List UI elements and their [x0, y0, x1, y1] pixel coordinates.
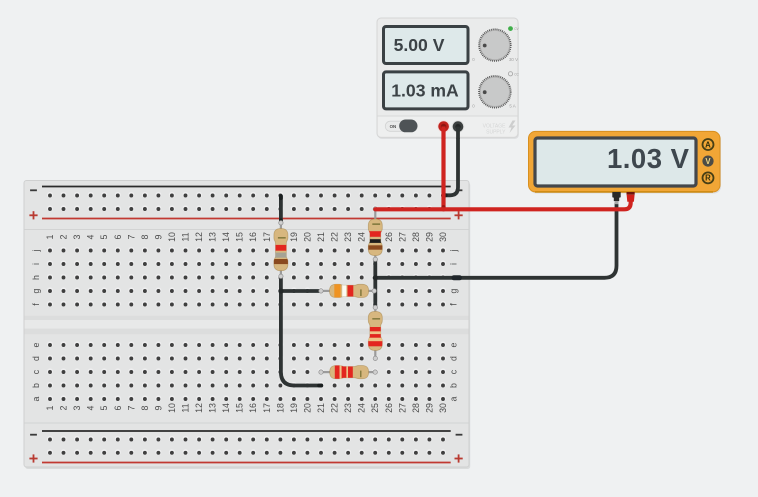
svg-text:j: j [31, 249, 41, 252]
svg-text:21: 21 [316, 403, 326, 413]
svg-text:e: e [31, 342, 41, 347]
power supply voltage display 5.00 V [384, 27, 469, 64]
svg-text:3: 3 [72, 405, 82, 410]
wire: top rail (+) col25 to multimeter red probe [375, 200, 630, 210]
svg-text:a: a [449, 396, 459, 401]
svg-text:5.00 V: 5.00 V [394, 35, 445, 55]
svg-text:1.03 mA: 1.03 mA [391, 80, 459, 100]
svg-text:e: e [449, 342, 459, 347]
svg-text:1.03 V: 1.03 V [607, 143, 690, 174]
power supply positive terminal (red) [438, 121, 450, 133]
power supply current display 1.03 mA [384, 72, 469, 109]
power supply knob (current) [479, 76, 511, 108]
VOLTAGE SUPPLY label and bolt icon [483, 121, 516, 136]
svg-text:14: 14 [221, 403, 231, 413]
svg-text:1: 1 [45, 405, 55, 410]
svg-text:12: 12 [194, 232, 204, 242]
top rail positive line [42, 218, 451, 220]
svg-text:5: 5 [99, 234, 109, 239]
svg-text:20: 20 [302, 403, 312, 413]
svg-text:7: 7 [126, 405, 136, 410]
svg-text:30 V: 30 V [509, 57, 518, 62]
svg-text:2: 2 [59, 234, 69, 239]
svg-text:30: 30 [438, 232, 448, 242]
breadboard holes [47, 192, 446, 455]
svg-text:g: g [449, 288, 459, 293]
svg-text:25: 25 [370, 403, 380, 413]
svg-text:SUPPLY: SUPPLY [486, 129, 506, 135]
svg-text:3: 3 [72, 234, 82, 239]
wire: top rail (-) col18 down to resistor R1 [279, 196, 283, 222]
breadboard labels [31, 232, 459, 413]
bottom rail positive line [42, 462, 451, 464]
ON switch [385, 120, 417, 133]
svg-text:b: b [449, 383, 459, 388]
svg-text:12: 12 [194, 403, 204, 413]
svg-text:19: 19 [289, 403, 299, 413]
wire: col25 between R3 bottom and R4 top [373, 260, 377, 308]
svg-text:10: 10 [167, 232, 177, 242]
resistor R3 (col 25, rail+ to row i) [367, 207, 383, 262]
svg-text:11: 11 [181, 403, 191, 412]
svg-text:17: 17 [262, 403, 272, 413]
svg-text:23: 23 [343, 232, 353, 242]
svg-text:13: 13 [208, 403, 218, 413]
svg-text:8: 8 [140, 234, 150, 239]
svg-text:16: 16 [248, 403, 258, 413]
svg-text:27: 27 [397, 232, 407, 242]
svg-text:R: R [705, 174, 711, 183]
svg-text:15: 15 [235, 232, 245, 242]
svg-text:24: 24 [357, 232, 367, 242]
svg-text:16: 16 [248, 232, 258, 242]
svg-text:26: 26 [384, 232, 394, 242]
svg-text:15: 15 [235, 403, 245, 413]
wire: power supply positive terminal down to top rail (+) col30 [441, 127, 445, 209]
svg-text:6: 6 [113, 234, 123, 239]
svg-text:4: 4 [86, 405, 96, 410]
svg-text:17: 17 [262, 232, 272, 242]
svg-text:9: 9 [153, 405, 163, 410]
multimeter black probe [612, 192, 620, 204]
svg-text:h: h [31, 275, 41, 280]
svg-text:g: g [31, 288, 41, 293]
multimeter body [529, 131, 722, 193]
svg-text:d: d [449, 356, 459, 361]
svg-text:A: A [705, 140, 711, 149]
svg-text:i: i [449, 263, 459, 265]
svg-text:2: 2 [59, 405, 69, 410]
resistor R4 (col 25, row f to row d) [367, 305, 383, 360]
svg-text:30: 30 [438, 403, 448, 413]
svg-text:14: 14 [221, 232, 231, 242]
svg-text:7: 7 [126, 234, 136, 239]
power supply unit [377, 18, 519, 139]
svg-text:23: 23 [343, 403, 353, 413]
svg-text:22: 22 [330, 232, 340, 242]
svg-text:18: 18 [275, 403, 285, 413]
breadboard [24, 181, 470, 470]
wire stubs over PSU bottom strip [441, 127, 445, 140]
CC indicator [508, 72, 519, 77]
svg-text:9: 9 [153, 234, 163, 239]
svg-text:1: 1 [45, 234, 55, 239]
wire: junction col18 row g to resistor R2 left lead [281, 289, 321, 293]
svg-text:5: 5 [99, 405, 109, 410]
svg-text:c: c [31, 369, 41, 374]
wire: R1 bottom down col18, bend right to hole (21,b) [281, 277, 321, 386]
svg-text:28: 28 [411, 232, 421, 242]
svg-text:CC: CC [514, 72, 519, 76]
multimeter red probe [627, 192, 635, 202]
resistor R5 (row c, cols 21-25) [319, 365, 378, 380]
top rail negative line [42, 186, 451, 188]
svg-text:10: 10 [167, 403, 177, 413]
power supply knob (voltage) [479, 29, 511, 61]
svg-text:11: 11 [181, 232, 191, 241]
svg-text:c: c [449, 369, 459, 374]
svg-text:13: 13 [208, 232, 218, 242]
svg-text:d: d [31, 356, 41, 361]
svg-text:22: 22 [330, 403, 340, 413]
CV indicator (green) [508, 26, 519, 31]
bottom rail negative line [42, 430, 451, 432]
svg-text:20: 20 [302, 232, 312, 242]
svg-text:ON: ON [390, 124, 397, 129]
rail polarity labels [29, 189, 462, 462]
svg-text:j: j [449, 249, 459, 252]
svg-text:b: b [31, 383, 41, 388]
wire: col25 row h to multimeter black probe [375, 204, 616, 278]
resistor R1 (col 18, rows rail- to h) [273, 221, 289, 279]
svg-text:24: 24 [357, 403, 367, 413]
svg-text:6: 6 [113, 405, 123, 410]
svg-text:4: 4 [86, 234, 96, 239]
svg-text:19: 19 [289, 232, 299, 242]
resistor R2 (row g, cols 21-25) [319, 283, 377, 298]
svg-text:5 A: 5 A [509, 104, 515, 109]
wire: power supply negative terminal to top rail (-) col30 [443, 127, 458, 195]
svg-text:a: a [31, 396, 41, 401]
svg-text:8: 8 [140, 405, 150, 410]
svg-text:21: 21 [316, 232, 326, 242]
svg-text:26: 26 [384, 403, 394, 413]
svg-text:i: i [31, 263, 41, 265]
svg-text:28: 28 [411, 403, 421, 413]
knob scale labels [472, 57, 518, 109]
multimeter display 1.03 V [535, 138, 696, 186]
svg-text:29: 29 [424, 403, 434, 413]
svg-text:29: 29 [424, 232, 434, 242]
svg-text:V: V [705, 157, 711, 166]
svg-text:27: 27 [397, 403, 407, 413]
multimeter mode buttons A V R [702, 139, 713, 183]
power supply negative terminal (black) [452, 121, 464, 133]
